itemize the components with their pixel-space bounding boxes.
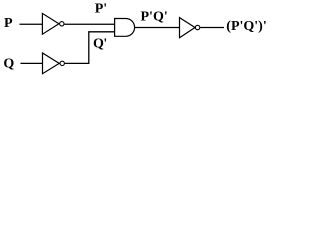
- svg-text:P: P: [4, 16, 13, 31]
- svg-text:P'Q': P'Q': [141, 10, 168, 25]
- svg-text:Q': Q': [93, 36, 107, 51]
- svg-text:P': P': [95, 2, 107, 17]
- svg-text:Q: Q: [3, 56, 14, 71]
- svg-text:(P'Q')': (P'Q')': [226, 19, 266, 34]
